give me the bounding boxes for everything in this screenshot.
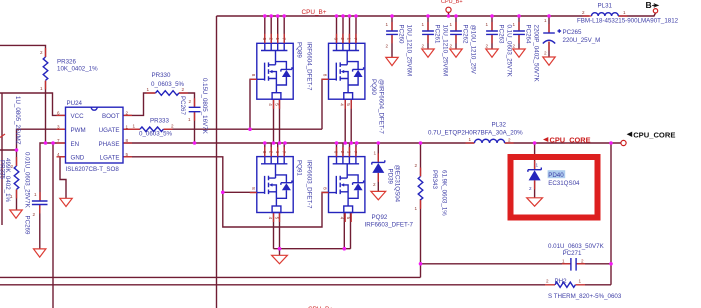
- wire LGATE row: [123, 157, 329, 227]
- svg-text:BOOT: BOOT: [102, 113, 120, 120]
- svg-text:0.01U_0603_25V7K: 0.01U_0603_25V7K: [24, 152, 31, 209]
- svg-text:2: 2: [513, 44, 516, 49]
- svg-text:2: 2: [126, 111, 129, 116]
- svg-text:PC269: PC269: [24, 216, 31, 235]
- svg-text:2: 2: [11, 164, 14, 169]
- transistor Q PQ92: [322, 147, 365, 222]
- svg-text:2: 2: [508, 138, 511, 143]
- wire PL31 lead to B+: [618, 13, 655, 16]
- svg-text:PD40: PD40: [548, 172, 564, 179]
- wire PQ92 sources down: [344, 213, 350, 249]
- wire source rail to ground: [279, 249, 281, 256]
- resistor PR330: [147, 72, 188, 95]
- svg-text:1: 1: [415, 206, 418, 211]
- ground under PC269: [34, 249, 46, 257]
- wire PQ90 sources to PHASE: [345, 99, 351, 143]
- svg-text:FBM-L18-453215-900LMA90T_1812: FBM-L18-453215-900LMA90T_1812: [577, 18, 679, 25]
- svg-text:220U_25V_M: 220U_25V_M: [563, 37, 601, 44]
- svg-text:2200P_0402_50V7K: 2200P_0402_50V7K: [533, 25, 540, 83]
- op-amp/driver U PU24 ISL6207: [57, 100, 133, 173]
- svg-text:CPU_CORE: CPU_CORE: [550, 135, 591, 144]
- svg-text:1: 1: [133, 124, 136, 129]
- svg-text:LGATE: LGATE: [100, 155, 120, 162]
- capacitor PC267: [179, 78, 208, 135]
- svg-text:@EC31QS04: @EC31QS04: [394, 165, 401, 203]
- wire CPU_B+ left vertical rail: [216, 16, 218, 308]
- wire PQ89 sources to PHASE: [274, 99, 280, 143]
- ground under 499K: [10, 210, 22, 218]
- wire UGATE rail: [164, 128, 323, 130]
- svg-text:CPU_B+: CPU_B+: [302, 9, 327, 16]
- svg-text:PQ90: PQ90: [370, 79, 377, 95]
- svg-text:PR333: PR333: [150, 118, 169, 125]
- svg-text:PC263: PC263: [498, 25, 505, 44]
- wire PQ91 drains from PHASE: [265, 143, 284, 157]
- net port +CPU_CORE: [621, 131, 676, 146]
- wire PC271 row: [421, 263, 612, 265]
- svg-text:PR343: PR343: [431, 170, 438, 189]
- svg-text:1: 1: [544, 18, 547, 23]
- wire PQ90 drains to bus: [337, 16, 357, 43]
- ground PU24 GND pin: [60, 198, 72, 206]
- resistor PR343: [415, 163, 448, 216]
- svg-text:1: 1: [147, 87, 150, 92]
- capacitor PC261: [422, 22, 449, 76]
- junction dots CPU_B+ bus at capacitors: [390, 14, 394, 18]
- svg-text:PQ92: PQ92: [372, 214, 388, 221]
- svg-text:0.7U_ETQP2H0R7BFA_30A_20%: 0.7U_ETQP2H0R7BFA_30A_20%: [428, 130, 523, 137]
- wire left edge rail: [1, 93, 3, 225]
- svg-text:PR326: PR326: [57, 59, 76, 66]
- junction dots low-side source rail: [278, 247, 282, 251]
- svg-text:GND: GND: [71, 155, 85, 162]
- svg-text:PH2: PH2: [555, 278, 568, 285]
- svg-text:EC31QS04: EC31QS04: [548, 180, 580, 187]
- svg-text:1: 1: [623, 10, 626, 15]
- svg-text:@IRF6604_DFET-7: @IRF6604_DFET-7: [378, 79, 385, 134]
- svg-text:2: 2: [171, 124, 174, 129]
- capacitor PC262: [450, 22, 477, 75]
- net label +CPU_CORE red: [543, 135, 591, 144]
- svg-text:EN: EN: [71, 141, 80, 148]
- svg-text:1: 1: [422, 22, 425, 27]
- svg-text:1: 1: [34, 192, 37, 197]
- wire bottom rail 2 (thermistor): [0, 284, 611, 286]
- wire bottom rail 1: [0, 276, 421, 278]
- junction dots CPU_B+ bus at PQ89 drains: [263, 14, 267, 18]
- svg-text:1U_0805_25VMZ: 1U_0805_25VMZ: [14, 96, 21, 145]
- svg-text:1: 1: [188, 117, 191, 122]
- svg-text:10U_1210_25V6M: 10U_1210_25V6M: [442, 25, 449, 77]
- svg-text:2: 2: [415, 163, 418, 168]
- svg-text:61.9K_0603_1%: 61.9K_0603_1%: [441, 170, 448, 216]
- svg-text:PC260: PC260: [398, 25, 405, 44]
- ground under PD40: [527, 198, 543, 206]
- svg-text:IRF6603_DFET-7: IRF6603_DFET-7: [365, 222, 414, 229]
- svg-text:PC261: PC261: [434, 25, 441, 44]
- wire top-left to PR326: [0, 45, 46, 57]
- wire PQ92 drains from PHASE: [337, 143, 357, 157]
- wire VCC feed: [0, 93, 66, 115]
- net port CPU_B+: [441, 0, 463, 12]
- svg-text:PWM: PWM: [71, 127, 86, 134]
- svg-text:UGATE: UGATE: [99, 127, 120, 134]
- transistor Q PQ90: [322, 34, 365, 109]
- svg-text:1: 1: [386, 22, 389, 27]
- wire BOOT to PR330: [123, 93, 156, 115]
- svg-text:2: 2: [450, 44, 453, 49]
- resistor PR333: [131, 118, 174, 138]
- capacitor PC263: [486, 22, 513, 78]
- svg-text:PC264: PC264: [525, 25, 532, 44]
- wire CPU_B+ top bus: [217, 15, 590, 17]
- svg-text:2: 2: [422, 44, 425, 49]
- wire CPU_B+ port stub: [448, 12, 450, 16]
- wire GND pin to ground: [60, 157, 66, 199]
- svg-text:5: 5: [126, 152, 129, 157]
- svg-text:0_0603_5%: 0_0603_5%: [151, 81, 185, 88]
- svg-text:2: 2: [182, 87, 185, 92]
- svg-text:PHASE: PHASE: [99, 141, 120, 148]
- svg-text:IRF6603_DFET-7: IRF6603_DFET-7: [306, 160, 313, 209]
- resistor PR326: [40, 48, 98, 91]
- wire UGATE to PQ90 gate: [322, 79, 329, 129]
- junction dot PC267 to PHASE: [193, 141, 197, 145]
- svg-text:CPU_CORE: CPU_CORE: [633, 131, 675, 140]
- junction dot UGATE branch: [248, 127, 252, 131]
- svg-text:0_0603_5%: 0_0603_5%: [139, 131, 173, 138]
- svg-text:1: 1: [126, 124, 129, 129]
- svg-text:2: 2: [529, 186, 532, 191]
- svg-text:S THERM_820+-5%_0603: S THERM_820+-5%_0603: [548, 293, 622, 300]
- svg-text:PU24: PU24: [67, 100, 83, 107]
- svg-text:1: 1: [579, 279, 582, 284]
- wire PD39 stem: [377, 143, 379, 191]
- wire PR326 bottom to EN node: [45, 81, 47, 143]
- junction dots +CPU_CORE at PD40 and sense: [533, 141, 537, 145]
- wire EN node down rail: [52, 143, 54, 308]
- svg-text:1: 1: [450, 22, 453, 27]
- wire PC265 stubs: [548, 16, 550, 57]
- ground low-side sources: [272, 255, 288, 263]
- red tick left edge: [0, 134, 5, 138]
- svg-text:2: 2: [544, 51, 547, 56]
- svg-text:PC267: PC267: [179, 96, 186, 115]
- svg-text:1: 1: [40, 86, 43, 91]
- svg-text:1: 1: [486, 22, 489, 27]
- wire low-side source rail: [274, 248, 351, 250]
- svg-text:2: 2: [189, 99, 192, 104]
- svg-text:2: 2: [40, 50, 43, 55]
- wire EN row: [40, 143, 66, 201]
- svg-text:@10U_1210_25V: @10U_1210_25V: [470, 25, 477, 75]
- svg-text:IRF6604_DFET-7: IRF6604_DFET-7: [306, 42, 313, 91]
- svg-text:PC262: PC262: [462, 25, 469, 44]
- wire PR330 to PC267: [179, 93, 195, 107]
- svg-text:0.01U_0603_50V7K: 0.01U_0603_50V7K: [548, 243, 605, 250]
- transistor Q PQ91: [250, 147, 293, 222]
- junction dots CPU_B+ bus at PQ90 drains: [335, 14, 339, 18]
- svg-text:0.1U_0603_25V7K: 0.1U_0603_25V7K: [506, 25, 513, 78]
- junction dots PHASE under PQ89/PQ91: [263, 141, 267, 145]
- wire PR343 stem: [420, 143, 422, 277]
- wire +CPU_CORE to port: [505, 142, 621, 144]
- svg-text:VCC: VCC: [71, 113, 85, 120]
- svg-text:2: 2: [582, 10, 585, 15]
- thermistor PH2: [546, 278, 622, 300]
- svg-text:ISL6207CB-T_SO8: ISL6207CB-T_SO8: [66, 166, 120, 173]
- net port B+: [646, 0, 660, 13]
- wire PQ89 drains to bus: [265, 16, 284, 43]
- wire PHASE rail: [123, 142, 475, 144]
- svg-text:2: 2: [373, 182, 376, 187]
- svg-text:0.15U_0805_16V7K: 0.15U_0805_16V7K: [201, 78, 208, 135]
- wire PC267 bottom to PHASE: [194, 112, 196, 143]
- svg-text:2: 2: [386, 44, 389, 49]
- capacitor PC265 polarized: [543, 18, 601, 56]
- svg-text:PC271: PC271: [563, 250, 582, 257]
- svg-text:2: 2: [546, 279, 549, 284]
- svg-text:PC265: PC265: [563, 29, 582, 36]
- wire +CPU_CORE sense vertical: [610, 143, 612, 285]
- wire LGATE to PQ91 gate: [223, 191, 257, 193]
- svg-text:1: 1: [562, 258, 565, 263]
- svg-text:2: 2: [581, 258, 584, 263]
- inductor PL32: [428, 122, 523, 144]
- svg-text:2: 2: [33, 212, 36, 217]
- capacitor PC269: [24, 152, 48, 235]
- wire cap stubs top bus: [392, 16, 519, 57]
- svg-text:PL32: PL32: [492, 122, 507, 129]
- svg-text:PQ91: PQ91: [296, 160, 303, 176]
- svg-text:1: 1: [469, 137, 472, 142]
- inductor PL31 ferrite bead: [577, 3, 679, 25]
- svg-text:CPU_B+: CPU_B+: [441, 0, 463, 5]
- svg-text:4: 4: [57, 152, 60, 157]
- diode PD39: [372, 151, 401, 203]
- svg-text:1: 1: [513, 22, 516, 27]
- wire PQ91 sources down: [274, 213, 280, 249]
- capacitor PC260: [386, 22, 413, 76]
- junction dot PWM node: [15, 148, 19, 152]
- red highlight box: [511, 157, 598, 218]
- diode PD40 EC31QS04: [528, 161, 580, 191]
- junction dot LGATE at PQ91 gate: [221, 191, 225, 195]
- resistor PR331 499K: [0, 157, 19, 203]
- junction dots EN node: [44, 141, 48, 145]
- transistor Q PQ89: [250, 34, 293, 109]
- svg-text:1: 1: [374, 151, 377, 156]
- svg-text:7: 7: [57, 138, 60, 143]
- svg-text:PL31: PL31: [598, 3, 613, 10]
- junction dots PHASE at PD39 and PR343: [377, 141, 381, 145]
- svg-text:1: 1: [10, 194, 13, 199]
- wire UGATE to PR333: [123, 128, 140, 130]
- svg-text:PD39: PD39: [387, 169, 394, 185]
- wire 499K bottom to ground: [16, 190, 18, 211]
- wire PC269 bottom to ground: [39, 205, 41, 249]
- svg-text:6: 6: [57, 111, 60, 116]
- svg-text:PQ89: PQ89: [296, 42, 303, 58]
- svg-text:8: 8: [126, 138, 129, 143]
- wire UGATE to PQ89 gate: [250, 79, 257, 129]
- wire PWM to left: [0, 129, 66, 166]
- capacitor PC271: [548, 243, 605, 271]
- ground under PD39: [371, 191, 386, 199]
- svg-text:PR330: PR330: [152, 72, 171, 79]
- svg-text:3: 3: [57, 124, 60, 129]
- junction dots PHASE under PQ90/PQ92: [335, 141, 339, 145]
- capacitor PC264: [513, 22, 540, 82]
- svg-text:1: 1: [536, 163, 539, 168]
- svg-text:10K_0402_1%: 10K_0402_1%: [57, 66, 98, 73]
- svg-text:10U_1210_25V6M: 10U_1210_25V6M: [406, 25, 413, 77]
- junction dots PC271 row: [419, 262, 423, 266]
- wire PD40 stem: [534, 143, 536, 198]
- svg-text:2: 2: [486, 44, 489, 49]
